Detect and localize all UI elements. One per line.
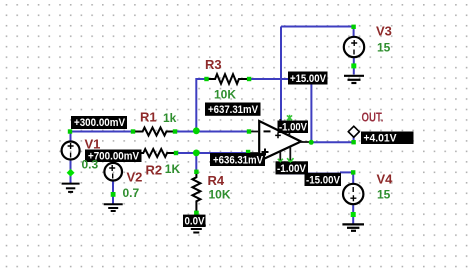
node: V3 top terminal (351, 25, 355, 29)
wire net +700mV: V2 top to R2 left (113, 152, 136, 154)
node: V2 bottom terminal (111, 192, 116, 197)
svg-text:15: 15 (377, 41, 391, 55)
op-amp top power pin stub (279, 119, 281, 132)
ground under V4 (342, 224, 364, 230)
op-amp top unused pin stub (288, 119, 290, 136)
svg-text:0.3: 0.3 (82, 158, 99, 172)
wire: R3 left drop to inverting input row (196, 79, 206, 131)
svg-text:V2: V2 (127, 170, 143, 185)
voltage source V1 (62, 142, 80, 160)
svg-text:R1: R1 (140, 110, 157, 125)
resistor R2 (136, 149, 176, 157)
wire: V3 top stem (353, 27, 355, 38)
svg-text:+15.00V: +15.00V (290, 73, 327, 85)
svg-text:V1: V1 (85, 137, 101, 152)
OUT diamond pin (348, 126, 359, 137)
node: R1 left terminal (131, 129, 135, 133)
resistor R1 (133, 128, 175, 136)
voltage label box +4.01V (361, 132, 414, 145)
voltage label box -15.00V (305, 173, 342, 187)
svg-text:+4.01V: +4.01V (364, 133, 398, 145)
resistor R3 (207, 74, 250, 84)
svg-text:OUT.: OUT. (362, 111, 384, 125)
op-amp bottom power pin stub (279, 152, 281, 162)
voltage source V4 (flipped, + down) (343, 184, 363, 204)
svg-text:0.0V: 0.0V (185, 216, 206, 228)
voltage label box +636.31mV (210, 153, 265, 166)
voltage source V3 (344, 37, 364, 57)
op-amp inverting input marker (264, 130, 271, 132)
wire: R4 bottom stem to ground (195, 211, 197, 224)
svg-text:-1.00V: -1.00V (277, 163, 307, 175)
voltage label box 0.0V (183, 215, 206, 228)
svg-text:V3: V3 (376, 24, 392, 39)
wire: top rail to V3 (281, 26, 354, 28)
node: op-amp inverting input terminal (247, 129, 251, 133)
node: OUT diamond stem (351, 140, 355, 144)
resistor R4 (192, 172, 200, 212)
svg-text:10K: 10K (209, 188, 231, 202)
ground under R4 (187, 226, 206, 233)
wire: V- supply from op-amp bottom to V4 (280, 162, 341, 174)
svg-text:15: 15 (377, 188, 391, 202)
svg-text:-1.00V: -1.00V (279, 122, 308, 134)
svg-text:V4: V4 (377, 172, 394, 187)
op-amp V+ supply plus marker (275, 133, 281, 138)
wire: V3 bottom stem to ground (353, 57, 355, 74)
svg-text:1k: 1k (163, 111, 177, 125)
ground under V1 (62, 184, 80, 192)
wire: OUT diamond stem (353, 137, 355, 142)
wire: R2 right to op-amp non-inverting input node (176, 152, 248, 154)
svg-text:R4: R4 (208, 173, 225, 188)
wire: junction to R4 top (195, 153, 197, 172)
node: V4 bottom terminal (351, 212, 356, 217)
svg-text:-15.00V: -15.00V (306, 174, 341, 186)
junction: R2 row / R4 (193, 150, 200, 157)
op-amp non-inverting input marker (262, 149, 269, 156)
svg-text:R3: R3 (205, 57, 222, 72)
svg-text:+300.00mV: +300.00mV (74, 117, 126, 129)
svg-text:0.7: 0.7 (123, 186, 140, 200)
op-amp output pin stub (301, 141, 311, 143)
voltage label box +637.31mV (205, 103, 261, 116)
voltage source V2 (104, 163, 122, 181)
junction: op-amp output (309, 140, 314, 145)
op-amp U1 triangle (259, 121, 301, 161)
op-amp input pin stubs (248, 132, 259, 154)
voltage label box +700.00mV (85, 150, 142, 163)
ground under V2 (104, 204, 123, 211)
wire: V2 bottom stem to ground (112, 181, 114, 205)
green marker: op-amp bottom power pin arrow (278, 159, 283, 162)
node: R3 left terminal (204, 77, 208, 81)
node: R1 right terminal (173, 129, 177, 133)
node: R3 right terminal (247, 77, 251, 81)
svg-text:+636.31mV: +636.31mV (213, 154, 264, 166)
wire: R1 right to op-amp inverting input node (175, 131, 249, 133)
wire: V+ supply vertical to op-amp (280, 27, 282, 121)
ground under V3 (344, 76, 364, 83)
svg-text:1K: 1K (165, 162, 181, 176)
junction: feedback / R1 row (193, 127, 200, 134)
node: V1 bottom terminal (diamond) (67, 169, 75, 177)
wire: V4 bottom stem to ground (352, 205, 354, 224)
wire: V1 top stem (70, 132, 72, 143)
voltage label box +15.00V (288, 72, 328, 85)
wire: output row to OUT node (311, 141, 354, 143)
svg-text:R2: R2 (146, 163, 163, 178)
node: R2 right terminal (174, 151, 178, 155)
green marker: op-amp bottom unused pin arrow (287, 158, 293, 162)
node: op-amp non-inverting input terminal (246, 150, 250, 154)
green marker: op-amp top unused pin X (287, 115, 292, 121)
node: V4 top terminal (351, 170, 355, 174)
node: V1 top terminal (68, 129, 72, 133)
voltage label box -1.00V (bottom) (276, 161, 309, 175)
wire net +300mV: V1 top to R1 left (70, 131, 133, 133)
voltage label box -1.00V (top) (278, 121, 309, 134)
voltage label box +300.00mV (71, 116, 127, 129)
op-amp bottom unused pin stub (289, 147, 291, 162)
node: R4 top terminal (194, 170, 198, 174)
wire: V1 bottom stem to ground (70, 160, 72, 184)
svg-text:+637.31mV: +637.31mV (208, 104, 259, 116)
wire: V4 top stem (352, 172, 354, 184)
wire: V2 top stem (112, 153, 114, 164)
wire: feedback from R3 right to output node (249, 79, 311, 142)
node: V3 bottom terminal (351, 63, 356, 68)
node: R4 bottom terminal (194, 211, 199, 216)
svg-text:10K: 10K (214, 88, 236, 102)
